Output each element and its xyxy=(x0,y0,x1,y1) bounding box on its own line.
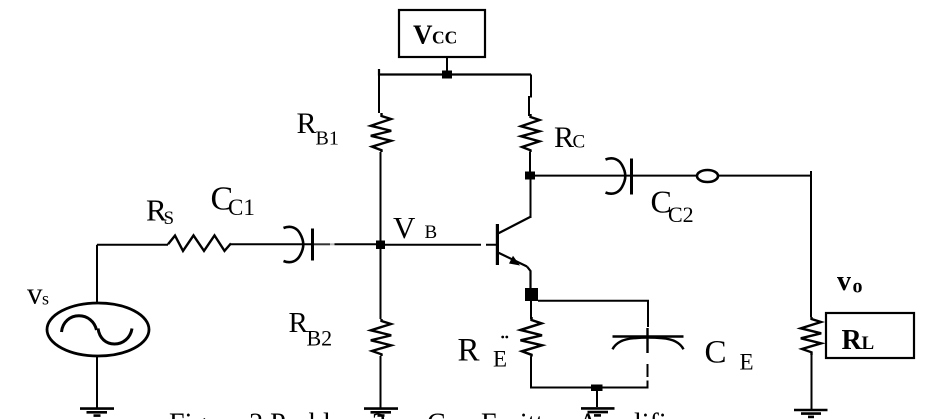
label CE xyxy=(705,335,754,375)
junction bottom node xyxy=(591,385,603,392)
resistor RL xyxy=(801,317,821,355)
svg-text:R: R xyxy=(554,121,574,154)
svg-text:R: R xyxy=(458,333,480,369)
svg-text:V: V xyxy=(413,20,433,50)
source vs ellipse xyxy=(47,303,149,356)
wire collector node down to transistor xyxy=(530,180,532,219)
resistor RE xyxy=(521,317,543,357)
wire RE bottom lead xyxy=(530,357,532,389)
svg-text:C2: C2 xyxy=(668,202,694,227)
svg-text:s: s xyxy=(42,289,49,309)
svg-text:E: E xyxy=(740,350,754,375)
svg-text:Figure 2 Problem 2:: Figure 2 Problem 2: xyxy=(169,409,394,419)
svg-text:CC: CC xyxy=(432,28,457,48)
bottom wire RE to CE xyxy=(530,387,649,389)
junction rail node xyxy=(442,71,452,79)
label vo xyxy=(837,266,863,298)
svg-text:E: E xyxy=(493,347,507,372)
wire VB to RB2 xyxy=(380,249,382,319)
svg-text:R: R xyxy=(842,325,863,356)
wire RB1 to VB node xyxy=(380,152,382,241)
svg-text:v: v xyxy=(837,266,851,297)
wire source to RS xyxy=(97,244,168,246)
svg-text:V: V xyxy=(393,210,416,245)
svg-text:C1: C1 xyxy=(228,195,255,220)
svg-text:C: C xyxy=(573,132,586,153)
label RB1 xyxy=(297,107,339,150)
box RL xyxy=(826,313,914,358)
ground at source xyxy=(80,409,114,416)
svg-text:B: B xyxy=(425,222,438,243)
top rail wire xyxy=(379,69,531,75)
wire emitter node to RE xyxy=(530,301,532,319)
ground emitter stub xyxy=(596,391,598,407)
svg-text:Emitter: Emitter xyxy=(481,409,566,419)
svg-text:C: C xyxy=(705,335,727,371)
wire source top lead xyxy=(96,245,98,303)
transistor Q1 xyxy=(496,217,531,289)
wire base (VB to transistor base) xyxy=(385,244,496,246)
label RB2 xyxy=(289,307,333,351)
svg-text:R: R xyxy=(289,307,309,339)
svg-text:o: o xyxy=(853,276,863,298)
oval on output wire xyxy=(697,170,718,182)
capacitor CE xyxy=(613,328,684,353)
wire CC1 to VB node xyxy=(314,243,330,245)
power box VCC xyxy=(399,10,485,57)
source vs sine wave xyxy=(62,316,97,332)
label RE xyxy=(458,333,509,372)
wire oval to right corner xyxy=(718,175,811,177)
svg-text:B1: B1 xyxy=(316,128,339,150)
resistor RS xyxy=(168,235,231,251)
wire CE bottom lead xyxy=(647,364,649,389)
svg-text:B2: B2 xyxy=(307,326,333,351)
resistor RC xyxy=(521,114,540,152)
wire emitter node to CE top xyxy=(538,301,648,327)
svg-text:R: R xyxy=(297,107,317,140)
emitter node junction xyxy=(525,288,538,301)
wire RS to CC1 xyxy=(231,243,313,245)
label node VB xyxy=(393,210,437,245)
wire source bottom lead xyxy=(96,356,98,408)
wire RL to ground xyxy=(811,355,813,409)
label vs xyxy=(27,276,49,311)
label RS xyxy=(146,193,174,230)
label RC xyxy=(554,121,585,154)
ground at emitter xyxy=(581,408,615,415)
label CC2 xyxy=(651,184,694,228)
wire CC2 to oval xyxy=(632,175,697,177)
wire VCC stub xyxy=(446,57,448,74)
capacitor CC2 xyxy=(606,158,632,194)
wire RC to collector node xyxy=(529,152,531,172)
capacitor CC1 xyxy=(284,227,313,262)
wire collector output to CC2 xyxy=(535,175,632,177)
ground at RB2 xyxy=(364,409,398,416)
resistor RB2 xyxy=(371,319,391,356)
svg-text:L: L xyxy=(862,333,875,354)
node VB junction xyxy=(376,241,385,250)
wire right drop to RL xyxy=(810,171,812,317)
svg-text:Amplifier: Amplifier xyxy=(578,409,689,419)
label CC1 xyxy=(211,181,255,221)
svg-text:v: v xyxy=(27,276,43,311)
ground at RL xyxy=(794,410,828,417)
resistor RB1 xyxy=(371,113,391,152)
svg-text:S: S xyxy=(164,208,175,229)
wire RB1 top lead xyxy=(378,75,380,114)
junction collector node xyxy=(525,172,535,180)
wire RC top lead with jog xyxy=(529,75,531,117)
wire RB2 to ground xyxy=(380,356,382,408)
